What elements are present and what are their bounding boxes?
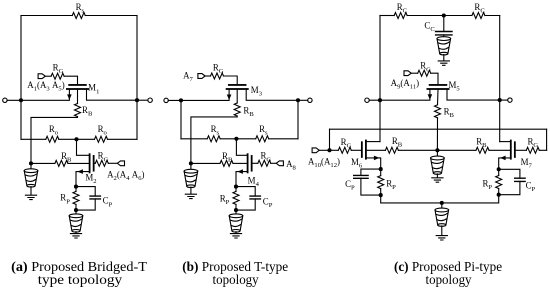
svg-text:topology: topology (426, 272, 472, 287)
svg-text:type topology: type topology (38, 272, 123, 287)
svg-text:topology: topology (213, 272, 259, 287)
